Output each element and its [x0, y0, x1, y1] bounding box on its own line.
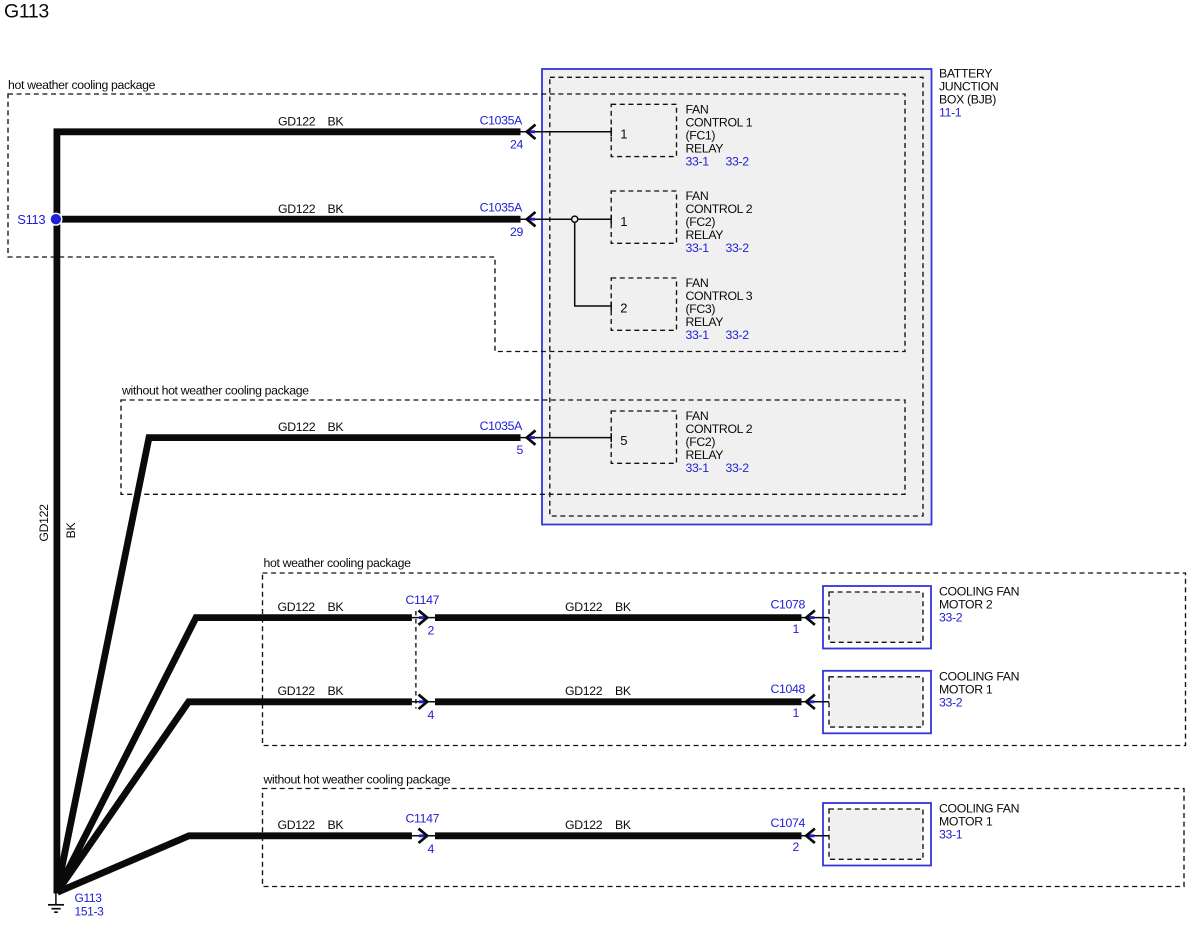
svg-text:CONTROL 3: CONTROL 3 [686, 289, 753, 303]
svg-text:33-2: 33-2 [726, 461, 750, 475]
svg-text:MOTOR 1: MOTOR 1 [939, 815, 993, 829]
ground G113 symbol [48, 893, 64, 912]
svg-text:G113: G113 [4, 1, 49, 23]
wire GD122 BK motor1base run left segment + diagonal [57, 836, 412, 892]
svg-text:RELAY: RELAY [686, 315, 724, 329]
region: hot weather cooling package (motors) dashed boundary [263, 573, 1186, 746]
svg-text:BK: BK [328, 684, 345, 698]
region: without hot weather cooling package (relay) dashed boundary [121, 400, 905, 494]
svg-text:FAN: FAN [686, 276, 709, 290]
ground G113 label [75, 891, 105, 919]
svg-text:33-2: 33-2 [726, 328, 750, 342]
cooling fan motor 1 (base) box [823, 803, 931, 866]
svg-text:MOTOR 2: MOTOR 2 [939, 598, 993, 612]
svg-text:1: 1 [793, 622, 800, 636]
svg-text:RELAY: RELAY [686, 141, 724, 155]
cooling fan motor 1 box [823, 671, 931, 734]
label GD122 BK wire motor1base left [278, 818, 345, 832]
wire GD122 BK motor1 run left segment + diagonal [57, 702, 412, 892]
label GD122 BK wire motor1 left [278, 684, 345, 698]
relay FC2 label [686, 189, 753, 255]
svg-text:G113: G113 [75, 891, 103, 905]
svg-text:GD122: GD122 [278, 420, 316, 434]
svg-text:BK: BK [328, 420, 345, 434]
svg-text:1: 1 [620, 127, 627, 142]
label GD122 BK wire motor1base right [565, 818, 632, 832]
relay FC2b label [686, 409, 753, 475]
svg-text:33-1: 33-1 [686, 328, 710, 342]
svg-text:33-1: 33-1 [686, 241, 710, 255]
label GD122 BK wire pin24 [278, 115, 344, 129]
wire junction drop to FC3 [575, 222, 611, 306]
connector C1147 pin 2 arrow + lead [412, 617, 435, 619]
connector C1147 dashed link (motors pair) [415, 611, 417, 709]
svg-text:BK: BK [64, 522, 78, 539]
svg-text:COOLING FAN: COOLING FAN [939, 585, 1019, 599]
wire GD122 BK pin29 run from S113 [57, 216, 521, 223]
svg-text:2: 2 [793, 840, 800, 854]
wire GD122 BK motor2 run left segment + diagonal [57, 618, 412, 891]
svg-text:FAN: FAN [686, 409, 709, 423]
relay FC1 label [686, 102, 753, 168]
relay FC2 pin box [611, 191, 676, 243]
label GD122 BK wire motor2 right [565, 600, 632, 614]
svg-text:MOTOR 1: MOTOR 1 [939, 682, 993, 696]
svg-text:FAN: FAN [686, 102, 709, 116]
cooling fan motor 1 label [939, 669, 1019, 709]
svg-text:C1147: C1147 [406, 593, 440, 607]
svg-text:5: 5 [620, 433, 627, 448]
connector C1048 arrow + lead [800, 701, 829, 703]
svg-text:(FC2): (FC2) [686, 215, 716, 229]
svg-text:C1147: C1147 [406, 811, 440, 825]
svg-text:without hot weather cooling pa: without hot weather cooling package [263, 773, 451, 787]
BJB caption [939, 67, 998, 120]
svg-text:BK: BK [615, 684, 632, 698]
wire GD122 BK motor1base run right segment [435, 832, 802, 839]
cooling fan motor 2 label [939, 585, 1019, 625]
svg-text:4: 4 [428, 842, 435, 856]
svg-text:(FC3): (FC3) [686, 302, 716, 316]
wire GD122 BK motor1 run right segment [435, 698, 802, 705]
cooling fan motor 1 (base) inner dashed box [829, 809, 923, 859]
cooling fan motor 2 inner dashed box [829, 592, 923, 642]
svg-text:24: 24 [510, 137, 523, 151]
cooling fan motor 1 inner dashed box [829, 677, 923, 727]
svg-text:BK: BK [615, 818, 632, 832]
svg-text:BK: BK [328, 600, 345, 614]
svg-text:GD122: GD122 [278, 115, 316, 129]
svg-text:BK: BK [328, 115, 345, 129]
svg-text:RELAY: RELAY [686, 228, 724, 242]
svg-text:(FC2): (FC2) [686, 435, 716, 449]
junction node on FC2 lead [572, 216, 578, 222]
svg-text:COOLING FAN: COOLING FAN [939, 669, 1019, 683]
wire GD122 BK motor2 run right segment [435, 614, 802, 621]
svg-text:FAN: FAN [686, 189, 709, 203]
cooling fan motor 1 (base) label [939, 802, 1019, 842]
svg-text:151-3: 151-3 [75, 905, 105, 919]
label GD122 BK wire motor2 left [278, 600, 345, 614]
svg-text:33-2: 33-2 [939, 611, 963, 625]
battery junction box BJB outline [542, 69, 932, 525]
connector C1035A pin 5 arrow + lead [519, 437, 611, 439]
svg-text:GD122: GD122 [278, 818, 316, 832]
svg-text:GD122: GD122 [565, 600, 603, 614]
svg-text:S113: S113 [17, 212, 45, 227]
svg-text:C1035A: C1035A [480, 419, 523, 433]
svg-text:CONTROL 2: CONTROL 2 [686, 202, 753, 216]
svg-text:GD122: GD122 [565, 818, 603, 832]
svg-text:without hot weather cooling pa: without hot weather cooling package [121, 384, 309, 398]
connector C1147 pin 4 arrow + lead [412, 701, 435, 703]
svg-text:2: 2 [620, 301, 627, 316]
svg-text:BK: BK [328, 818, 345, 832]
svg-text:RELAY: RELAY [686, 448, 724, 462]
relay FC1 pin box [611, 104, 676, 156]
svg-text:C1035A: C1035A [480, 201, 523, 215]
label GD122 BK wire pin29 [278, 202, 344, 216]
connector C1035A pin 24 arrow + lead [519, 131, 611, 133]
svg-text:33-1: 33-1 [939, 828, 963, 842]
svg-text:BK: BK [328, 202, 345, 216]
relay FC3 pin box [611, 278, 676, 330]
svg-text:GD122: GD122 [278, 600, 316, 614]
svg-text:5: 5 [517, 443, 524, 457]
label GD122 BK wire motor1 right [565, 684, 632, 698]
svg-text:C1035A: C1035A [480, 113, 523, 127]
svg-text:29: 29 [510, 225, 523, 239]
svg-text:11-1: 11-1 [939, 106, 962, 120]
wire GD122 BK pin5 run with diagonal to ground [57, 438, 520, 891]
svg-text:1: 1 [620, 214, 627, 229]
svg-text:hot weather cooling package: hot weather cooling package [264, 556, 412, 570]
svg-text:33-2: 33-2 [726, 241, 750, 255]
svg-text:BK: BK [615, 600, 632, 614]
svg-text:BATTERY: BATTERY [939, 67, 992, 81]
svg-text:GD122: GD122 [278, 202, 316, 216]
region: without hot weather cooling package (motor) dashed boundary [263, 789, 1185, 887]
svg-text:C1074: C1074 [771, 816, 806, 830]
svg-text:CONTROL 2: CONTROL 2 [686, 422, 753, 436]
svg-text:33-1: 33-1 [686, 154, 710, 168]
splice S113 dot [49, 213, 62, 226]
label GD122 BK wire pin5 [278, 420, 344, 434]
svg-text:GD122: GD122 [565, 684, 603, 698]
svg-text:GD122: GD122 [37, 504, 51, 542]
svg-text:C1048: C1048 [771, 682, 806, 696]
svg-text:GD122: GD122 [278, 684, 316, 698]
relay FC3 label [686, 276, 753, 342]
connector C1078 arrow + lead [800, 617, 829, 619]
svg-text:C1078: C1078 [771, 598, 806, 612]
svg-text:33-2: 33-2 [939, 695, 963, 709]
connector C1147 pin 4 base arrow + lead [412, 835, 435, 837]
wire GD122 BK main: pin24 run + vertical trunk to ground [57, 132, 521, 894]
svg-text:JUNCTION: JUNCTION [939, 80, 998, 94]
svg-text:1: 1 [793, 706, 800, 720]
cooling fan motor 2 box [823, 586, 931, 649]
svg-text:CONTROL 1: CONTROL 1 [686, 115, 753, 129]
svg-text:33-2: 33-2 [726, 154, 750, 168]
svg-text:4: 4 [428, 708, 435, 722]
svg-text:BOX (BJB): BOX (BJB) [939, 93, 996, 107]
connector C1074 arrow + lead [800, 835, 829, 837]
svg-text:(FC1): (FC1) [686, 128, 716, 142]
relay FC2b pin box [611, 411, 676, 463]
svg-text:hot weather cooling package: hot weather cooling package [8, 78, 156, 92]
region: hot weather cooling package (top) dashed boundary [8, 94, 905, 352]
svg-text:2: 2 [428, 624, 435, 638]
connector C1035A pin 29 arrow + lead [519, 218, 611, 220]
svg-text:COOLING FAN: COOLING FAN [939, 802, 1019, 816]
svg-text:33-1: 33-1 [686, 461, 710, 475]
BJB inner dashed boundary [550, 77, 923, 516]
